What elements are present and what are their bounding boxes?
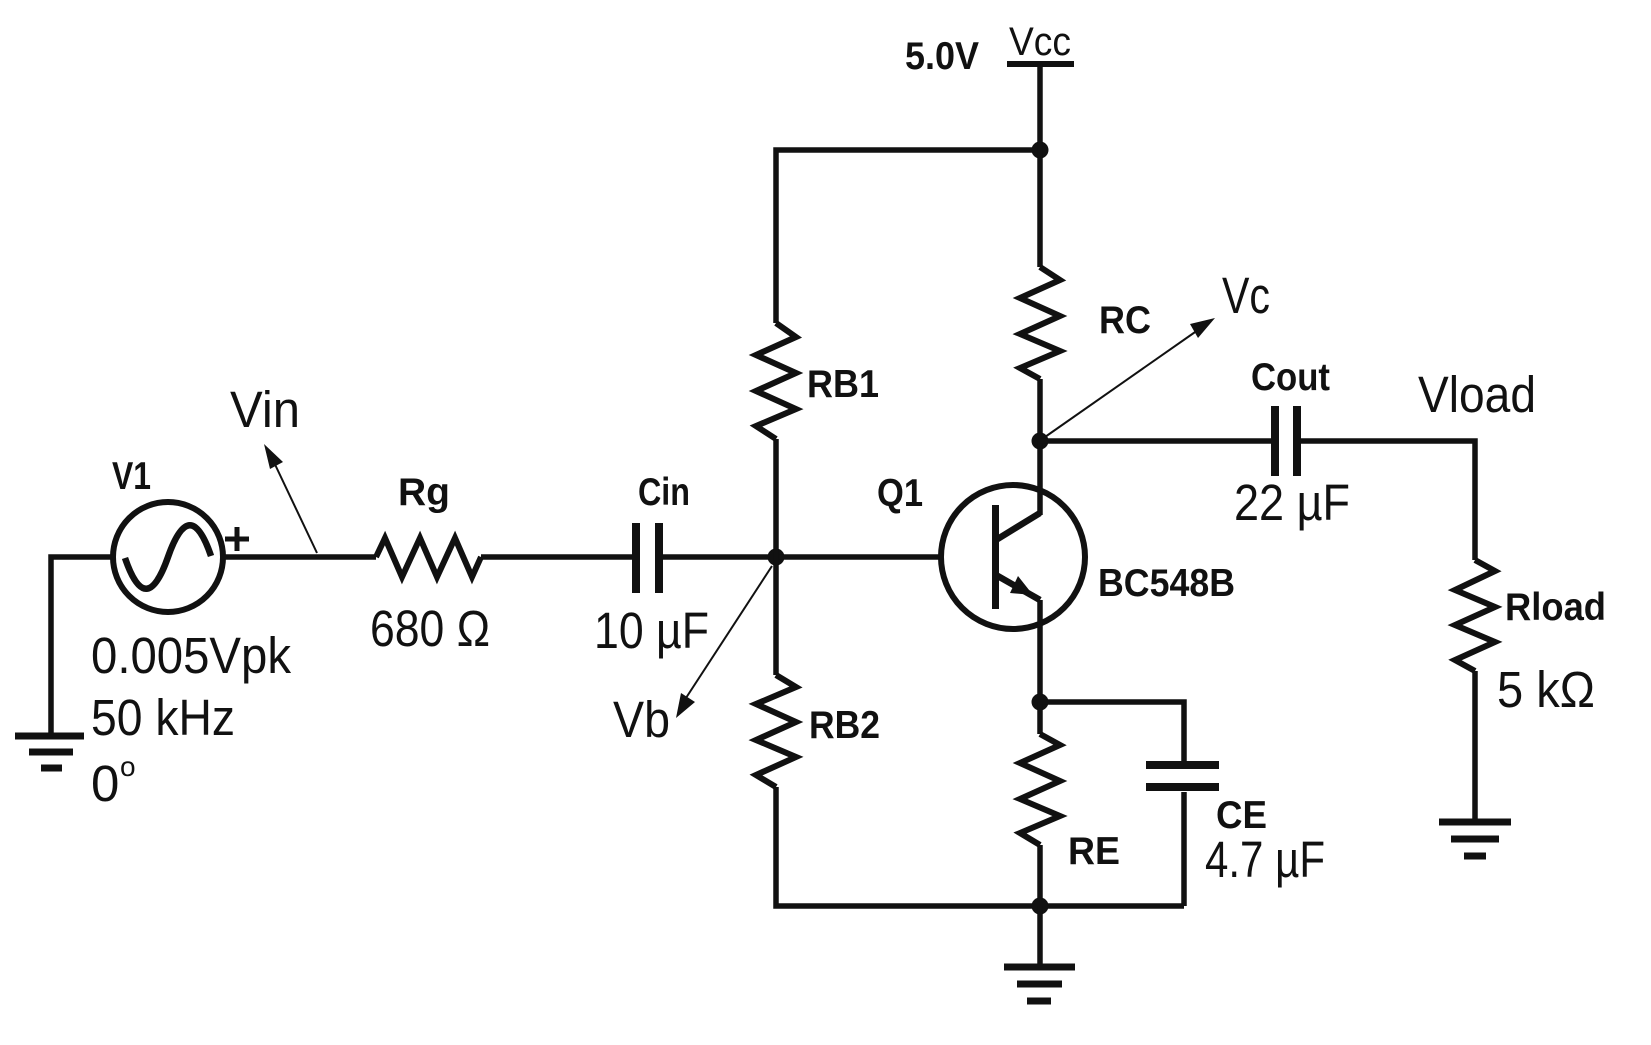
svg-text:5.0V: 5.0V (905, 35, 979, 78)
wire RB2 from base node (773, 557, 779, 675)
resistor RB1 (756, 323, 796, 439)
node base junction (768, 549, 785, 566)
arrow to Vc (1045, 318, 1215, 437)
ground at V1 (15, 736, 84, 768)
node emitter junction (1032, 694, 1049, 711)
wire CE to bottom rail (1181, 792, 1187, 906)
wire RE to bottom rail (1037, 845, 1043, 906)
svg-text:RC: RC (1099, 299, 1151, 342)
plus sign (225, 527, 249, 551)
node Vcc junction (1032, 142, 1049, 159)
wire emitter to RE (1037, 702, 1043, 734)
svg-text:Q1: Q1 (877, 472, 923, 515)
wire emitter to CE branch (1040, 702, 1184, 762)
wire emitter down (1037, 600, 1043, 702)
svg-text:Vcc: Vcc (1009, 20, 1071, 64)
svg-text:0.005Vpk: 0.005Vpk (91, 627, 291, 684)
resistor RE (1020, 734, 1060, 845)
svg-text:50 kHz: 50 kHz (91, 689, 235, 746)
node bottom rail junction (1032, 898, 1049, 915)
svg-text:o: o (120, 751, 136, 782)
node collector Vc (1032, 433, 1049, 450)
svg-text:5 kΩ: 5 kΩ (1497, 661, 1595, 718)
resistor RC (1020, 267, 1060, 379)
wire base node to Q1 (776, 554, 944, 560)
resistor RB2 (756, 675, 796, 787)
ground at emitter rail (1004, 967, 1075, 1001)
capacitor Cin (632, 523, 663, 593)
capacitor CE (1146, 761, 1219, 791)
wire V1 to Rg (224, 554, 376, 560)
wire Cout to Rload (1301, 441, 1475, 560)
svg-text:Cin: Cin (638, 471, 690, 514)
transistor Q1 (941, 485, 1085, 629)
wire ground stub (1037, 906, 1043, 967)
svg-text:10 µF: 10 µF (594, 602, 709, 659)
svg-text:4.7 µF: 4.7 µF (1205, 831, 1325, 888)
svg-text:RE: RE (1068, 830, 1120, 873)
svg-text:Cout: Cout (1251, 356, 1330, 399)
wire left of V1 (51, 557, 113, 739)
svg-text:680 Ω: 680 Ω (370, 600, 490, 657)
ground at Rload (1439, 822, 1511, 856)
svg-text:Vc: Vc (1222, 267, 1270, 324)
svg-text:RB2: RB2 (809, 704, 880, 747)
svg-text:RB1: RB1 (807, 363, 879, 406)
value 0 deg (91, 751, 136, 812)
resistor Rload (1455, 560, 1495, 671)
svg-text:22 µF: 22 µF (1234, 474, 1350, 531)
wire RC to collector node (1037, 379, 1043, 441)
resistor Rg (376, 538, 481, 577)
wire RB1 top rail (773, 439, 779, 557)
wire bottom rail (776, 787, 1184, 906)
power Vcc (1007, 64, 1074, 150)
wire Vcc node to RC (1037, 150, 1043, 267)
svg-text:Vload: Vload (1418, 366, 1536, 423)
wire collector into Q1 (1037, 441, 1043, 515)
svg-text:Rg: Rg (398, 471, 450, 514)
arrow to Vb (676, 566, 772, 718)
wire Cin to base node (662, 554, 776, 560)
source V1 (113, 502, 223, 612)
svg-text:Vb: Vb (613, 691, 670, 748)
wire Rload to ground (1472, 671, 1478, 822)
wire Rg to Cin (481, 554, 633, 560)
wire collector to Cout (1040, 438, 1272, 444)
arrow to Vin (264, 444, 317, 553)
svg-text:Vin: Vin (230, 381, 300, 438)
svg-text:0: 0 (91, 755, 119, 812)
svg-text:BC548B: BC548B (1098, 562, 1235, 605)
svg-text:Rload: Rload (1505, 586, 1606, 629)
svg-text:V1: V1 (112, 455, 151, 498)
wire RB1 to top rail (776, 150, 1040, 323)
capacitor Cout (1271, 406, 1301, 476)
